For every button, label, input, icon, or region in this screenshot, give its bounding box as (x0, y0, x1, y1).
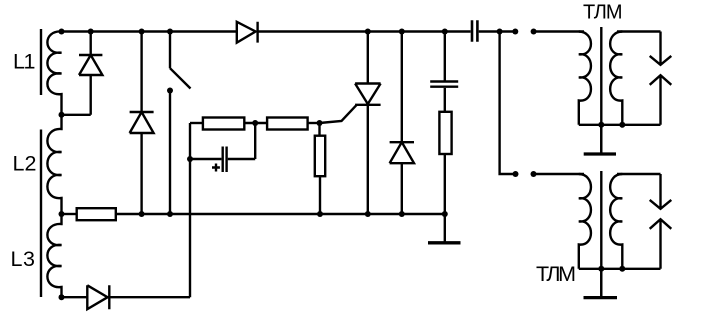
resistor R4 (318, 123, 320, 136)
wire bottom bus (116, 213, 445, 215)
wire pin to T2 primary (534, 173, 585, 175)
diode D1 (79, 32, 102, 115)
svg-text:ТЛМ: ТЛМ (536, 262, 576, 286)
node L1 top (59, 29, 65, 35)
wire gate rail vertical (189, 123, 191, 297)
transformer T1 secondary (610, 32, 622, 125)
resistor R3 (267, 118, 308, 130)
node T1 secondary bottom (619, 122, 625, 128)
wire L1 bottom to D1 (62, 114, 91, 116)
diode VD series on top bus (237, 22, 258, 43)
transformer T2 core (600, 171, 602, 297)
wire rail to R2 (190, 122, 203, 124)
node thyristor top (365, 29, 371, 35)
node gate (317, 120, 323, 126)
node pin lower left (513, 171, 519, 177)
wire R2 to R3 (244, 122, 267, 124)
node L2 L3 junction (59, 211, 65, 217)
node R2 R3 (252, 120, 258, 126)
diode D2 (130, 32, 154, 215)
wire top bus right segment (479, 30, 516, 32)
transformer T1 primary (579, 32, 591, 125)
thyristor VS1 (355, 32, 381, 215)
inductor L2 (47, 115, 61, 214)
svg-text:ТЛМ: ТЛМ (583, 1, 623, 23)
inductor L3 (47, 214, 61, 297)
node thyristor bottom (365, 211, 371, 217)
node D2 bottom (139, 211, 145, 217)
wire T1 secondary to arrester (617, 30, 661, 32)
node T2 core bottom (598, 266, 604, 272)
node D3 top (399, 29, 405, 35)
node switch lower contact (167, 88, 173, 94)
wire top bus middle segment (258, 30, 471, 32)
wire R3 to gate node (308, 122, 320, 124)
node tap top (497, 29, 503, 35)
node ground junction (442, 211, 448, 217)
node T1 core bottom (598, 122, 604, 128)
capacitor C2 electrolytic (190, 123, 255, 172)
capacitor C2 plus sign (212, 164, 220, 172)
core bar of L1 (40, 29, 42, 95)
node R4 bottom (317, 211, 323, 217)
node D2 top (139, 29, 145, 35)
resistor R5 (439, 112, 451, 154)
node L3 bottom (59, 294, 65, 300)
wire thyristor gate (320, 105, 357, 123)
node D1 top (88, 29, 94, 35)
node L1 bottom (59, 112, 65, 118)
node C2 left (187, 156, 193, 162)
node T2 secondary bottom (619, 266, 625, 272)
switch S1 (170, 32, 191, 215)
node D3 bottom (399, 211, 405, 217)
capacitor C3 (444, 32, 446, 82)
wire T2 secondary to arrester (617, 173, 661, 175)
wire top bus left segment (62, 30, 237, 32)
node C3 top (442, 29, 448, 35)
wire bottom bus left (62, 213, 77, 215)
ground T2 (600, 269, 602, 297)
arrester F2 (650, 174, 672, 269)
inductor L1 (47, 31, 61, 114)
resistor R2 (203, 118, 244, 130)
wire T1 bottom (579, 124, 661, 126)
wire pin to T1 primary (534, 30, 584, 32)
svg-text:L3: L3 (11, 247, 36, 271)
svg-text:L1: L1 (13, 50, 36, 74)
wire T2 bottom (579, 268, 661, 270)
arrester F1 (650, 32, 672, 125)
ground main (444, 214, 446, 242)
transformer T2 primary (579, 174, 591, 269)
resistor R1 (77, 208, 116, 220)
node pin top right (531, 29, 537, 35)
diode D4 bottom (61, 285, 191, 309)
node pin lower right (531, 171, 537, 177)
node pin top left (512, 29, 518, 35)
node switch bottom (167, 211, 173, 217)
node switch top (167, 29, 173, 35)
wire tap down to lower connector (500, 32, 516, 175)
svg-text:L2: L2 (13, 152, 37, 176)
transformer T2 secondary (610, 174, 622, 269)
shared core bar of L2 L3 (40, 130, 42, 298)
transformer T1 core (600, 27, 602, 153)
ground T1 (600, 125, 602, 153)
diode D3 (390, 32, 414, 215)
capacitor C1 series (472, 20, 477, 42)
